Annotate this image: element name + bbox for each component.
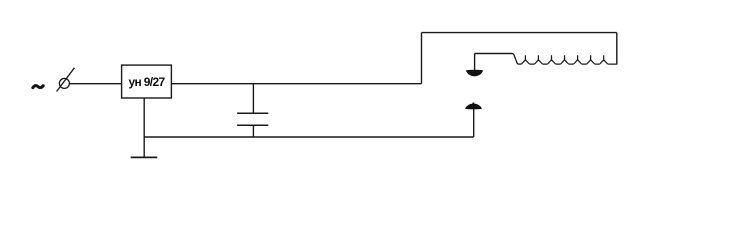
svg-text:ун 9/27: ун 9/27 [128, 75, 165, 89]
converter block U1 [122, 65, 172, 98]
capacitor C1 bottom lead [252, 125, 254, 137]
wire coil to spark gap [475, 53, 513, 55]
wire box bottom to ground [143, 98, 145, 157]
input terminal X1 (circle with slash) [57, 68, 75, 92]
wire box to riser [171, 83, 421, 85]
capacitor C1 top lead [252, 84, 254, 113]
spark gap F1 bottom electrode [465, 102, 482, 109]
wire bottom return [144, 136, 474, 138]
spark gap F1 top electrode [466, 70, 483, 77]
AC source symbol ~ [33, 86, 43, 88]
wire spark gap top lead [474, 54, 476, 71]
wire terminal to box [69, 83, 121, 85]
wire right drop to coil [616, 33, 618, 65]
inductor L1 coil [512, 54, 617, 65]
wire top horizontal [422, 32, 617, 34]
ground [131, 156, 158, 158]
wire spark gap bottom lead [473, 109, 475, 137]
wire riser up [421, 33, 423, 84]
capacitor C1 plates [237, 113, 268, 125]
